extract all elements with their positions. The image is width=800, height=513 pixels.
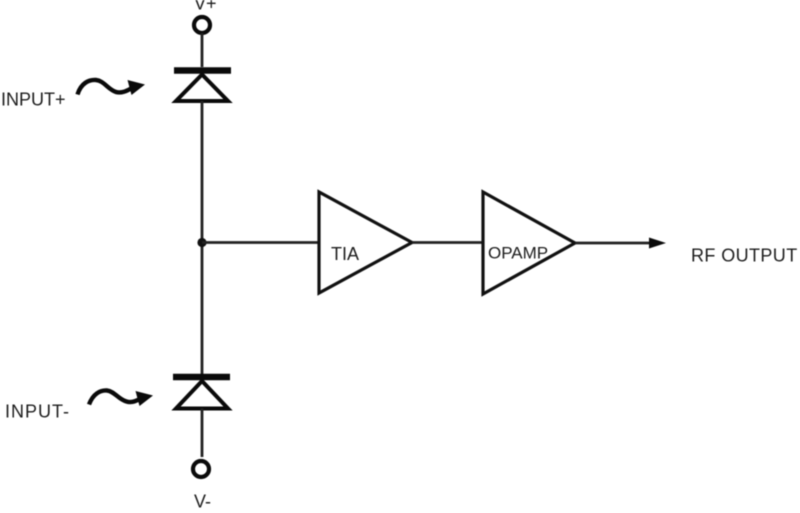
INPUT+ label — [1, 90, 66, 110]
amplifier TIA — [319, 192, 412, 293]
svg-text:V-: V- — [194, 492, 211, 512]
V+ terminal — [194, 17, 210, 33]
wire D1 anode to junction to D2 cathode — [201, 101, 204, 374]
svg-text:RF OUTPUT: RF OUTPUT — [691, 246, 798, 266]
svg-text:OPAMP: OPAMP — [488, 244, 548, 263]
V- label — [194, 492, 211, 512]
node junction dot — [197, 238, 206, 247]
wire junction to TIA input — [202, 241, 319, 244]
svg-text:TIA: TIA — [331, 244, 359, 264]
svg-text:INPUT-: INPUT- — [5, 402, 70, 422]
INPUT+ signal squiggle arrow — [78, 80, 146, 95]
svg-text:V+: V+ — [194, 0, 217, 14]
wire TIA output to OPAMP input — [412, 241, 483, 244]
RF OUTPUT label — [691, 246, 798, 266]
op-amp OPAMP — [483, 192, 575, 294]
RF output arrow wire — [575, 238, 666, 249]
INPUT- label — [5, 402, 70, 422]
photodiode D1 (INPUT+) — [174, 71, 231, 102]
INPUT- signal squiggle arrow — [89, 390, 153, 406]
V- terminal — [193, 461, 209, 477]
V+ label — [194, 0, 217, 14]
svg-text:INPUT+: INPUT+ — [1, 90, 66, 110]
photodiode D2 (INPUT-) — [173, 377, 230, 409]
wire D2 anode to V- terminal — [201, 409, 204, 458]
wire V+ terminal to D1 cathode — [201, 33, 204, 67]
